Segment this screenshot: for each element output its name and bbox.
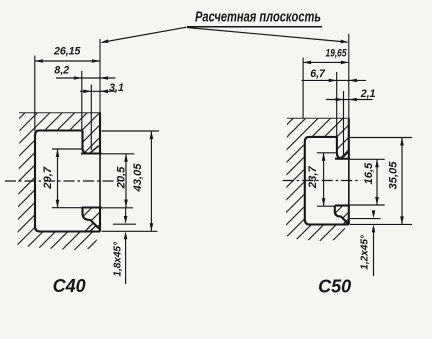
- svg-text:35,05: 35,05: [388, 161, 400, 190]
- svg-text:Расчетная плоскость: Расчетная плоскость: [195, 9, 321, 26]
- svg-text:С50: С50: [318, 277, 351, 297]
- svg-text:19,65: 19,65: [326, 47, 348, 59]
- svg-text:1,2x45°: 1,2x45°: [360, 234, 371, 270]
- svg-text:8,2: 8,2: [54, 65, 69, 77]
- svg-text:43,05: 43,05: [132, 163, 144, 193]
- svg-text:1,8x45°: 1,8x45°: [112, 241, 123, 277]
- svg-text:3,1: 3,1: [109, 82, 124, 94]
- svg-text:2,1: 2,1: [360, 88, 376, 100]
- svg-text:26,15: 26,15: [53, 46, 82, 58]
- svg-text:С40: С40: [53, 276, 86, 296]
- svg-text:16,5: 16,5: [363, 162, 375, 185]
- svg-text:20,5: 20,5: [115, 166, 127, 190]
- svg-text:6,7: 6,7: [310, 68, 326, 80]
- svg-text:23,7: 23,7: [307, 166, 319, 190]
- svg-text:29,7: 29,7: [42, 166, 54, 190]
